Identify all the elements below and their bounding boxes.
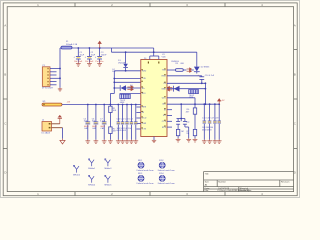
svg-text:500mA 1.7A: 500mA 1.7A (66, 43, 78, 46)
svg-text:MHole3: MHole3 (104, 168, 112, 170)
svg-text:File:: File: (205, 190, 210, 192)
svg-text:CAP: CAP (84, 127, 89, 130)
svg-text:6P SOCKET: 6P SOCKET (42, 88, 54, 90)
svg-text:RXD: RXD (162, 76, 167, 78)
svg-text:10uF: 10uF (91, 54, 96, 56)
svg-text:VDD: VDD (162, 57, 167, 59)
svg-text:DC JACK: DC JACK (42, 131, 51, 134)
svg-text:Fiducial mark 1mm: Fiducial mark 1mm (158, 170, 175, 172)
svg-text:C11 C12 C13 C14: C11 C12 C13 C14 (117, 119, 134, 121)
svg-text:Fiducial mark 1mm: Fiducial mark 1mm (137, 170, 154, 172)
svg-text:C10 4.7uF: C10 4.7uF (205, 75, 215, 77)
svg-text:MHole2: MHole2 (73, 174, 81, 176)
svg-text:CAP: CAP (92, 127, 97, 130)
svg-text:Fiducial mark 1mm: Fiducial mark 1mm (137, 183, 154, 185)
svg-text:RTS: RTS (162, 127, 167, 129)
svg-text:RXD: RXD (142, 71, 147, 73)
svg-text:TXD: TXD (162, 70, 167, 72)
svg-text:DSR: DSR (142, 123, 147, 125)
svg-text:IRO: IRO (142, 93, 146, 95)
svg-text:0603 0603: 0603 0603 (202, 129, 212, 131)
svg-text:Revision: Revision (281, 181, 290, 183)
svg-text:1M: 1M (181, 131, 184, 133)
svg-text:GND: GND (161, 88, 166, 90)
svg-text:DCD: DCD (142, 118, 147, 120)
svg-text:A: A (4, 24, 6, 28)
svg-text:Fiducial mark 1mm: Fiducial mark 1mm (158, 183, 175, 185)
svg-text:100nF: 100nF (101, 54, 107, 56)
svg-text:XO: XO (163, 115, 166, 117)
svg-text:Number: Number (218, 180, 226, 183)
svg-text:D2 IR333: D2 IR333 (201, 67, 210, 69)
svg-text:UD-: UD- (162, 103, 166, 105)
svg-text:MHole5: MHole5 (104, 185, 112, 187)
svg-text:RES: RES (142, 107, 147, 109)
svg-text:A: A (294, 24, 296, 28)
svg-text:0603 0603: 0603 0603 (117, 130, 127, 132)
svg-text:CAP: CAP (100, 127, 105, 130)
svg-text:CTS: CTS (162, 121, 167, 123)
svg-text:CTS: CTS (142, 129, 147, 131)
svg-text:B: B (294, 73, 296, 77)
svg-text:Drawn By:: Drawn By: (240, 189, 250, 192)
svg-text:MHole4: MHole4 (88, 185, 96, 187)
svg-text:B: B (4, 73, 6, 77)
svg-text:MHole1: MHole1 (88, 168, 96, 170)
svg-text:C15 C16 C17 C18: C15 C16 C17 C18 (202, 118, 219, 120)
svg-text:10uF: 10uF (80, 54, 85, 56)
svg-text:TXD: TXD (142, 78, 147, 80)
svg-text:0.1uF: 0.1uF (100, 120, 106, 122)
